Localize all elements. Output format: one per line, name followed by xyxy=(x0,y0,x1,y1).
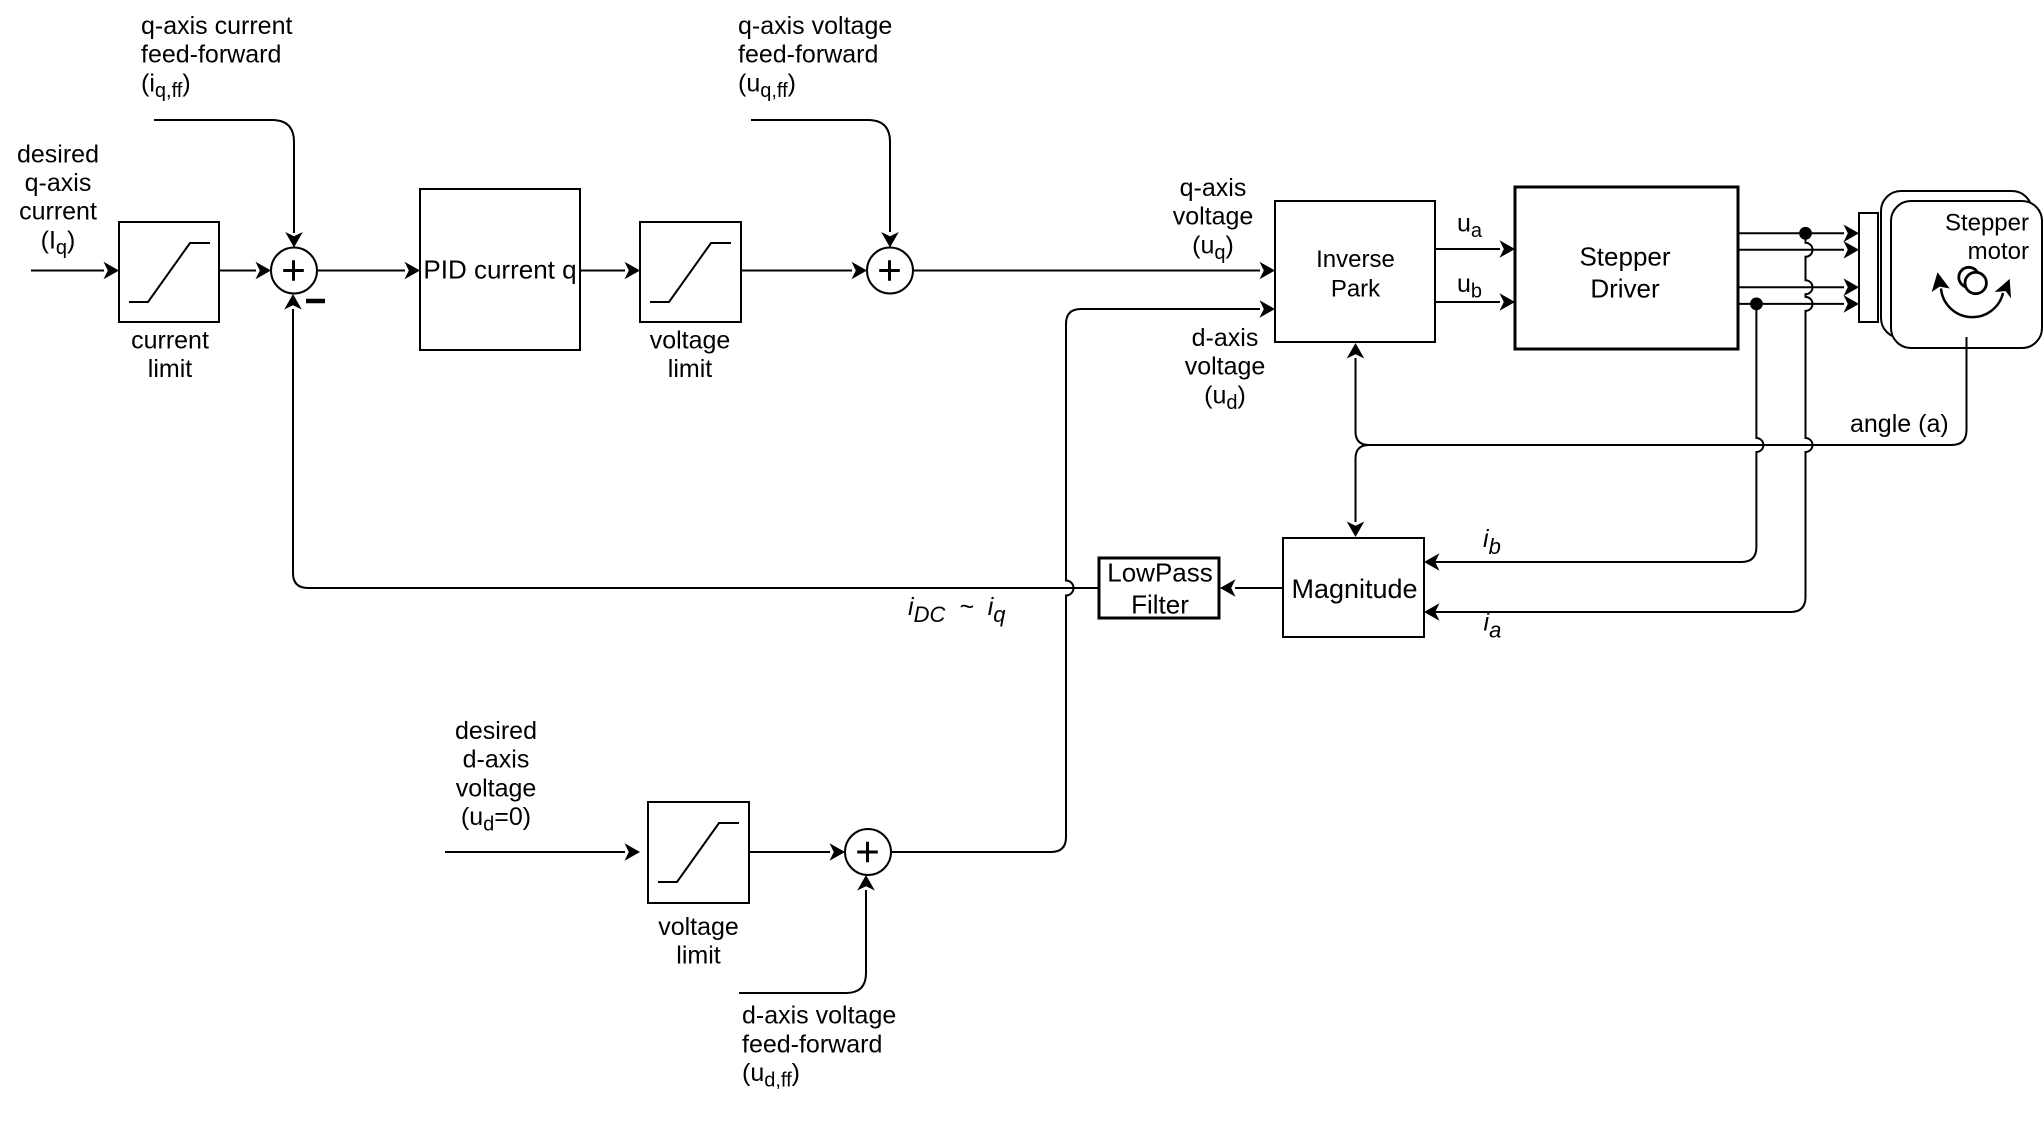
svg-text:q-axis: q-axis xyxy=(1180,174,1247,202)
svg-text:q-axis current: q-axis current xyxy=(141,12,292,40)
svg-text:limit: limit xyxy=(148,355,192,383)
svg-text:motor: motor xyxy=(1968,238,2029,265)
stepper motor: shaft circles xyxy=(1959,267,1979,287)
svg-text:current: current xyxy=(131,326,209,354)
svg-text:(uq): (uq) xyxy=(1192,231,1234,264)
svg-text:PID current q: PID current q xyxy=(423,255,576,285)
stepper motor: front body xyxy=(1891,201,2042,348)
wire: u_a from Inverse Park to Stepper Driver xyxy=(1435,248,1500,250)
wire: motor phase line 1 xyxy=(1738,232,1844,234)
wire: S2 to Inverse Park (q-axis voltage u_q) xyxy=(913,270,1260,272)
svg-text:voltage: voltage xyxy=(1173,203,1254,231)
wire: u_b from Inverse Park to Stepper Driver xyxy=(1435,301,1500,303)
block: voltage limit (saturation, q-axis) xyxy=(640,222,741,322)
svg-text:feed-forward: feed-forward xyxy=(742,1030,882,1058)
junction dot on phase line 4 xyxy=(1750,298,1763,311)
block: voltage limit (saturation, d-axis) xyxy=(648,802,749,903)
block: LowPass Filter xyxy=(1099,558,1219,618)
svg-text:limit: limit xyxy=(668,355,712,383)
svg-text:desired: desired xyxy=(17,140,99,168)
label: q-axis voltage (u_q) xyxy=(1173,174,1254,264)
wire: voltage limit to sum S2 xyxy=(741,270,852,272)
svg-text:LowPass: LowPass xyxy=(1107,558,1213,588)
svg-text:d-axis: d-axis xyxy=(463,746,530,774)
block: Stepper Driver xyxy=(1515,187,1738,349)
label: q-axis current feed-forward (i_q,ff) xyxy=(141,12,292,102)
wire: motor phase line 2 xyxy=(1738,249,1844,251)
svg-text:Magnitude: Magnitude xyxy=(1291,574,1417,604)
stepper motor: back body xyxy=(1881,191,2032,338)
svg-text:d-axis voltage: d-axis voltage xyxy=(742,1002,896,1030)
svg-text:d-axis: d-axis xyxy=(1192,324,1259,352)
svg-text:feed-forward: feed-forward xyxy=(141,41,281,69)
label: d-axis voltage feed-forward (u_d,ff) xyxy=(742,1002,896,1092)
svg-text:Park: Park xyxy=(1331,276,1381,303)
block: PID current q xyxy=(420,189,580,350)
svg-text:(ud=0): (ud=0) xyxy=(461,803,531,836)
svg-text:Driver: Driver xyxy=(1590,273,1660,303)
wire: motor phase line 3 xyxy=(1738,286,1844,288)
label: d-axis voltage (u_d) xyxy=(1185,324,1266,414)
wire: voltage limit to sum S3 xyxy=(749,851,830,853)
wire: measured current feedback (i_DC ~ i_q) to sum S1 minus input xyxy=(293,309,1099,588)
svg-text:(ud): (ud) xyxy=(1204,381,1246,414)
svg-text:Filter: Filter xyxy=(1131,590,1189,620)
wire: current limit to sum S1 xyxy=(219,270,256,272)
sum junction S1 (plus, minus feedback) xyxy=(271,248,317,294)
block: Magnitude xyxy=(1283,538,1424,637)
sum junction S2 xyxy=(867,248,913,294)
sum junction S3 xyxy=(845,829,891,875)
svg-text:desired: desired xyxy=(455,717,537,745)
wire: current sense i_b (from phase 4 dot down to Magnitude) xyxy=(1431,304,1763,562)
junction dot on phase line 1 xyxy=(1799,227,1812,240)
svg-text:Inverse: Inverse xyxy=(1316,246,1395,273)
wire: desired current into current limit xyxy=(31,270,104,272)
svg-text:voltage: voltage xyxy=(658,913,739,941)
wire: d-axis voltage u_d from S3 up to Inverse Park xyxy=(891,309,1260,852)
stepper motor: connector plate xyxy=(1859,213,1878,322)
label: desired d-axis voltage (u_d=0) xyxy=(455,717,537,836)
wire: Magnitude to LowPass Filter xyxy=(1235,587,1283,589)
svg-text:q-axis voltage: q-axis voltage xyxy=(738,12,892,40)
stepper motor: rotation arc with arrowheads xyxy=(1941,289,2003,318)
wire: motor phase line 4 xyxy=(1738,303,1844,305)
wire: u_d,ff into sum S3 xyxy=(739,890,866,993)
wire: current sense i_a (from phase 1 dot down to Magnitude) xyxy=(1431,233,1813,612)
label: desired q-axis current (I_q) xyxy=(17,140,99,259)
wire: PID to voltage limit xyxy=(580,270,625,272)
wire: S1 to PID current q xyxy=(317,270,405,272)
svg-text:q-axis: q-axis xyxy=(25,169,92,197)
svg-text:limit: limit xyxy=(676,942,720,970)
label: q-axis voltage feed-forward (u_q,ff) xyxy=(738,12,892,102)
svg-text:Stepper: Stepper xyxy=(1945,210,2029,237)
block: Inverse Park xyxy=(1275,201,1435,342)
svg-text:feed-forward: feed-forward xyxy=(738,41,878,69)
svg-text:voltage: voltage xyxy=(456,774,537,802)
svg-text:Stepper: Stepper xyxy=(1579,241,1670,271)
wire: u_q,ff into sum S2 xyxy=(751,120,890,232)
svg-text:voltage: voltage xyxy=(650,326,731,354)
svg-text:voltage: voltage xyxy=(1185,353,1266,381)
wire: desired d voltage into voltage limit xyxy=(445,851,625,853)
svg-text:angle (a): angle (a) xyxy=(1850,410,1949,438)
block: current limit (saturation) xyxy=(119,222,219,322)
wire: i_q,ff into sum junction S1 xyxy=(154,120,294,233)
svg-text:current: current xyxy=(19,198,97,226)
wire: angle (a) from motor to Inverse Park and Magnitude xyxy=(1369,337,1967,445)
